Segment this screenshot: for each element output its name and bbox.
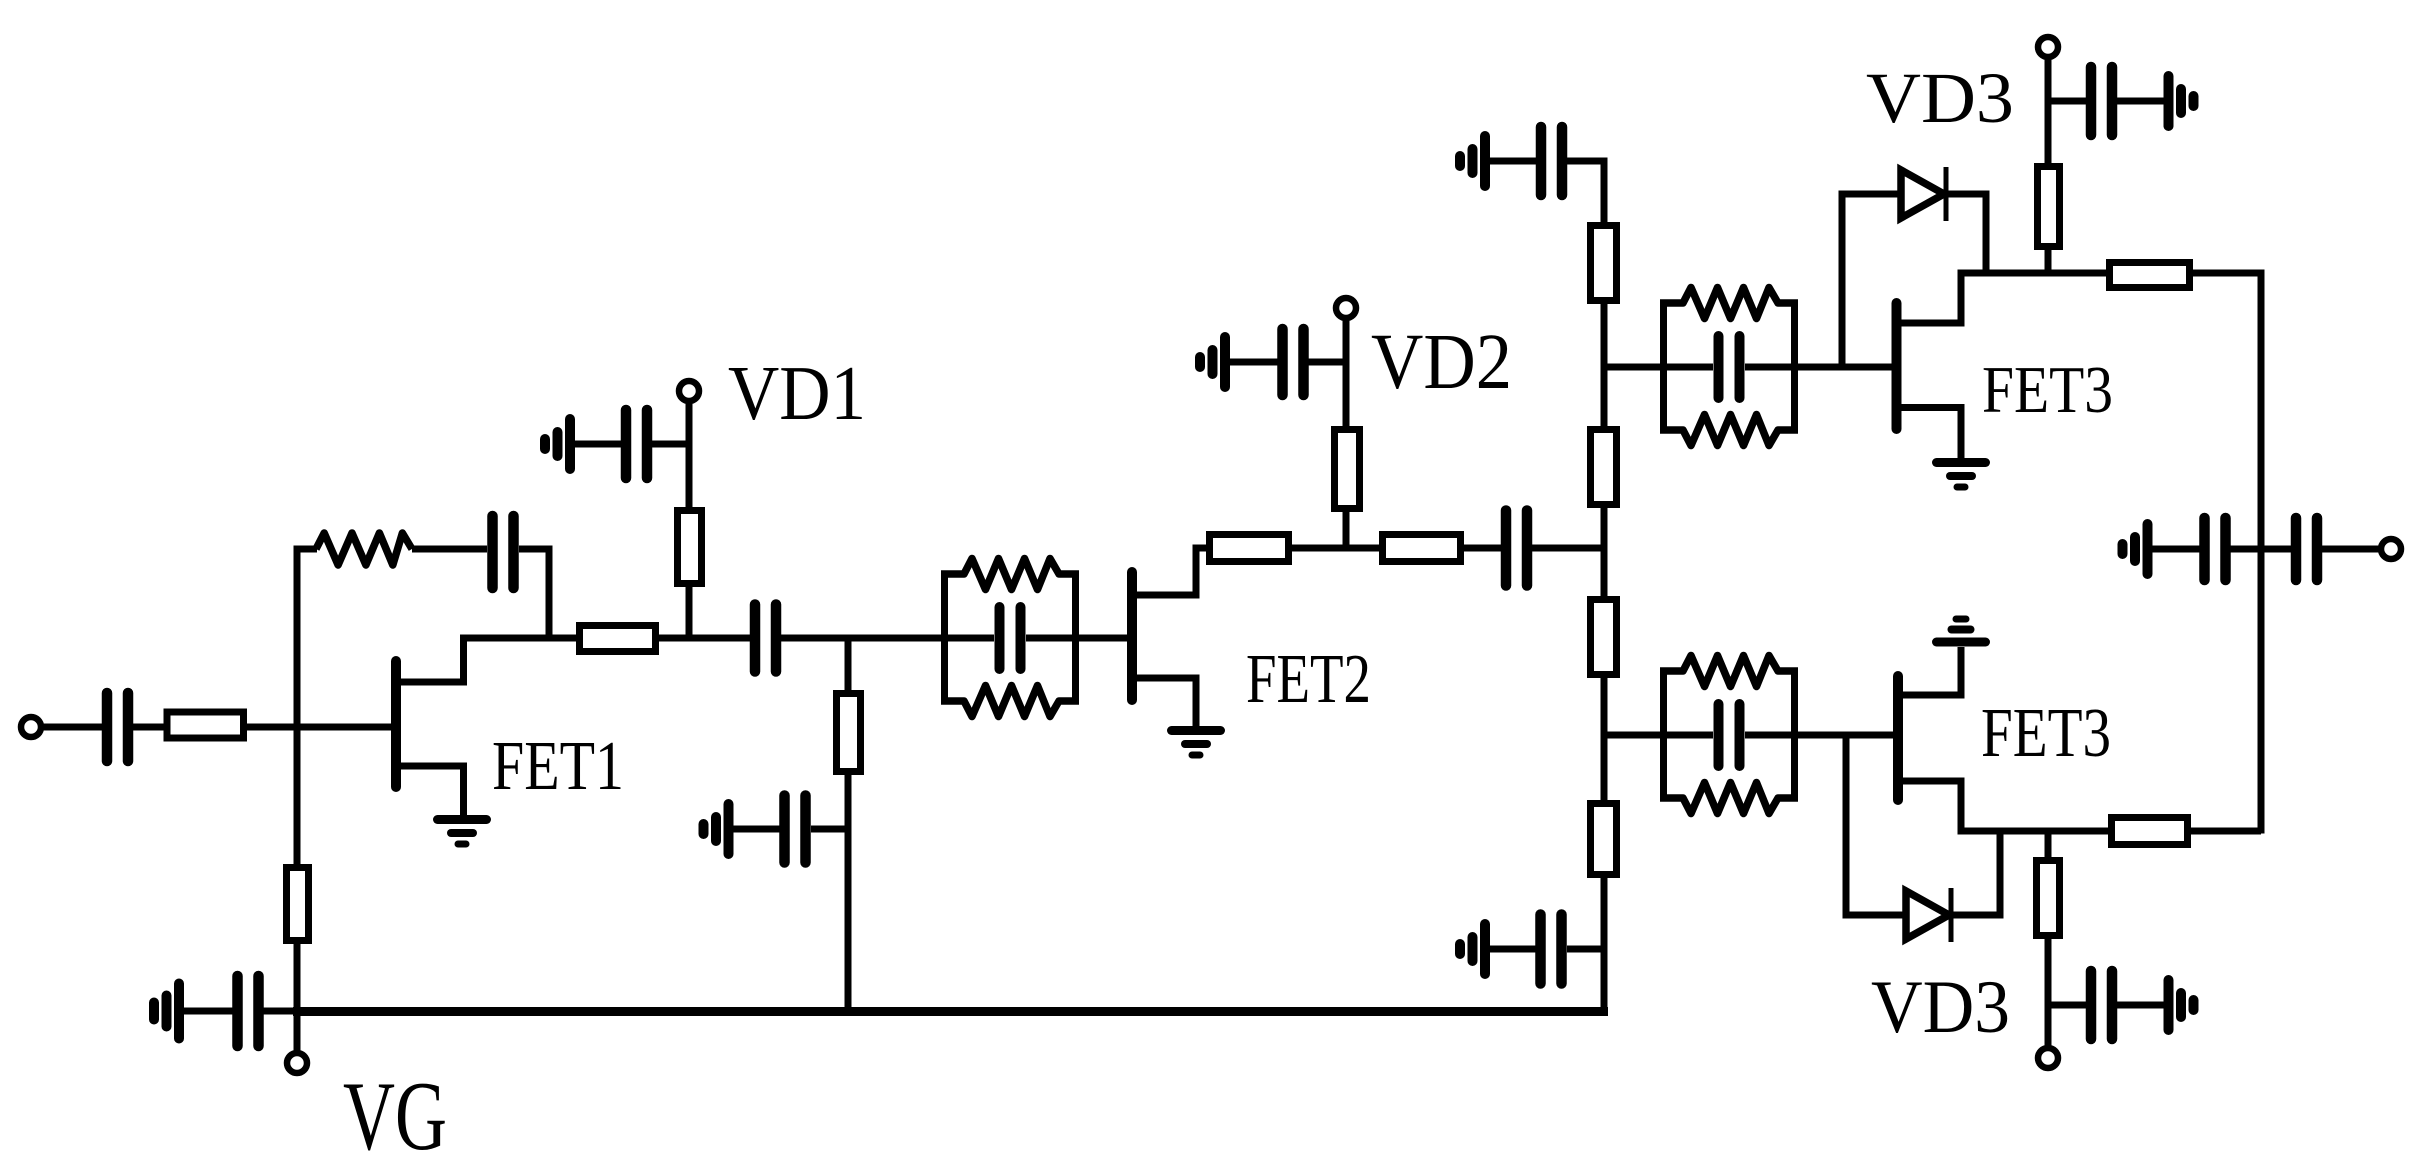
terminal VD3 top — [2038, 37, 2058, 57]
wire diode cathode stub bottom — [1951, 912, 2004, 919]
wire FET2 drain bus — [1196, 545, 1505, 552]
resistor R8 VD2 bias — [1335, 430, 1360, 509]
resistor R2 feedback — [316, 533, 412, 565]
node A gate bias vertical — [294, 546, 301, 1008]
wire FET3 bottom output node — [1961, 828, 2112, 835]
wire C7 stub — [1307, 359, 1350, 366]
resistor R9 column top — [1591, 226, 1617, 301]
wire C14 to ground — [184, 1008, 234, 1015]
capacitor C2 feedback — [493, 516, 514, 588]
output terminal — [2381, 539, 2401, 559]
wire FET1 drain lead — [399, 635, 464, 683]
resistor R17 gate bias — [287, 868, 309, 941]
capacitor C9 column bottom bypass — [1541, 915, 1562, 984]
ground output shunt — [2123, 524, 2148, 574]
capacitor C10 VD3 top bypass — [2091, 67, 2112, 135]
capacitor C7 VD2 bypass — [1283, 329, 1304, 395]
wire ground to C12 — [2152, 546, 2201, 553]
wire C7 to ground — [1230, 359, 1279, 366]
wire column to RC2 — [1604, 364, 1664, 371]
wire FET2 drain lead — [1135, 545, 1196, 596]
wire VD1 cap stub — [652, 441, 692, 448]
wire C2 to drain node — [519, 546, 553, 553]
wire VD3 top terminal down — [2045, 57, 2052, 277]
wire diode anode stub bottom — [1843, 912, 1907, 919]
wire bias tee vertical — [845, 638, 852, 1008]
capacitor C3 interstage — [755, 605, 776, 672]
resistor R6 bus series 1 — [1210, 535, 1289, 562]
resistor R14 VD3 top bias — [2038, 167, 2060, 247]
wire VG bus — [293, 1007, 1608, 1016]
label VD3 bottom — [1871, 966, 2010, 1049]
input terminal — [21, 717, 41, 737]
ground VD1 bypass — [545, 419, 570, 469]
label FET2 — [1246, 641, 1371, 718]
resistor R11 column third — [1591, 600, 1617, 675]
wire diode branch up — [1839, 191, 1846, 368]
wire C13 to output terminal — [2320, 546, 2381, 553]
ground column top bypass — [1460, 136, 1485, 186]
network RC2 parallel RC — [1660, 288, 1798, 446]
wire R15 to right rail — [2187, 828, 2261, 835]
svg-text:FET3: FET3 — [1982, 353, 2113, 427]
label VD2 — [1371, 319, 1512, 406]
label VG — [343, 1062, 447, 1171]
wire RC3 to FET3 gate — [1795, 732, 1894, 739]
transistor FET3 top gate bar — [1892, 303, 1902, 429]
transistor FET3 bottom gate bar — [1893, 676, 1903, 800]
resistor R5 bias tee — [837, 694, 861, 772]
wire FET2 source lead — [1135, 678, 1196, 726]
capacitor C4 VD1 bypass — [626, 410, 647, 478]
wire right rail — [2258, 273, 2265, 834]
wire FET1 drain to R3 — [460, 635, 579, 642]
wire C4 to ground — [575, 441, 623, 448]
resistor R12 column fourth — [1591, 804, 1617, 875]
ground VG bypass — [154, 984, 179, 1039]
wire C5 stub — [811, 826, 851, 833]
network RC3 parallel RC — [1660, 656, 1798, 814]
wire C9 to ground — [1490, 946, 1537, 953]
wire C10 to ground — [2117, 98, 2164, 105]
wire diode return up — [1997, 831, 2004, 915]
wire C3 to RC1 — [781, 635, 945, 642]
wire feedback top stub — [294, 546, 318, 553]
resistor R13 output top — [2110, 263, 2190, 288]
capacitor C12 output shunt — [2205, 518, 2226, 580]
wire C8 to ground — [1490, 158, 1537, 165]
wire C1 to R1 — [132, 724, 168, 731]
wire C12 to rail — [2230, 546, 2292, 553]
ground FET2 source — [1172, 731, 1221, 756]
label FET1 — [492, 728, 624, 805]
resistor R1 input series — [167, 712, 244, 738]
ground FET3 bottom drain inverted — [1937, 619, 1986, 642]
wire VD3 bottom vertical — [2045, 831, 2052, 1048]
wire C11 stub — [2045, 1002, 2088, 1009]
resistor R4 VD1 bias — [678, 511, 702, 584]
wire central column — [1601, 161, 1608, 1008]
wire C10 stub — [2045, 98, 2088, 105]
wire FET3 top drain lead — [1900, 270, 1961, 324]
terminal VD2 — [1336, 298, 1356, 318]
wire C5 to ground — [733, 826, 781, 833]
capacitor C6 interstage 2 — [1506, 511, 1527, 586]
wire diode cathode stub — [1946, 191, 1990, 198]
wire column to RC3 — [1604, 732, 1664, 739]
wire C6 to column — [1532, 545, 1604, 552]
wire C8 stub — [1567, 158, 1608, 165]
svg-text:VD1: VD1 — [728, 350, 866, 436]
wire FET3 bottom source lead — [1901, 781, 1961, 835]
svg-text:FET2: FET2 — [1246, 641, 1371, 718]
wire VD1 terminal down — [686, 401, 693, 642]
wire feedback down to drain wire — [546, 546, 553, 638]
wire R3 to C3 — [656, 635, 750, 642]
ground bias bypass — [704, 804, 729, 854]
wire RC2 to FET3 gate — [1795, 364, 1893, 371]
terminal VD3 bottom — [2038, 1048, 2058, 1068]
label VD3 top — [1866, 58, 2014, 138]
transistor FET2 gate bar — [1127, 572, 1137, 700]
label FET3 bottom — [1981, 695, 2111, 772]
resistor R15 output bottom — [2112, 818, 2188, 845]
wire diode branch down — [1843, 735, 1850, 919]
svg-text:VD3: VD3 — [1871, 966, 2010, 1049]
transistor FET1 gate bar — [391, 661, 401, 787]
wire VD2 terminal down — [1343, 318, 1350, 552]
resistor R16 VD3 bottom bias — [2037, 861, 2060, 936]
wire FET3 top drain node — [1961, 270, 2110, 277]
wire R2 to C2 — [412, 546, 487, 553]
wire RC1 to FET2 gate — [1076, 635, 1128, 642]
wire C9 stub — [1567, 946, 1608, 953]
label VD1 — [728, 350, 866, 436]
label FET3 top — [1982, 353, 2113, 427]
resistor R3 FET1 drain load — [580, 626, 656, 652]
wire diode return down — [1983, 194, 1990, 273]
network RC1 parallel RC — [941, 559, 1079, 717]
wire C14 to VG node — [262, 1008, 299, 1015]
wire R1 to FET1 gate node — [243, 724, 392, 731]
capacitor C8 column top bypass — [1541, 127, 1562, 195]
wire C11 to ground — [2117, 1002, 2164, 1009]
terminal VD1 — [679, 381, 699, 401]
resistor R7 bus series 2 — [1383, 535, 1461, 562]
svg-text:FET1: FET1 — [492, 728, 624, 805]
svg-text:VD3: VD3 — [1866, 58, 2014, 138]
svg-text:FET3: FET3 — [1981, 695, 2111, 772]
ground FET3 top source — [1937, 463, 1986, 488]
wire FET1 source lead — [399, 766, 464, 815]
svg-text:VD2: VD2 — [1371, 319, 1512, 406]
wire diode anode stub — [1839, 191, 1902, 198]
diode VD3 bottom — [1906, 888, 1951, 942]
diode VD3 top — [1901, 167, 1946, 221]
capacitor C5 bias bypass — [785, 796, 806, 863]
capacitor C11 VD3 bottom bypass — [2091, 971, 2112, 1039]
ground VD2 bypass — [1200, 337, 1225, 387]
svg-text:VG: VG — [343, 1062, 447, 1171]
wire FET3 bottom drain lead — [1901, 647, 1961, 695]
wire input to C1 — [41, 724, 103, 731]
capacitor C1 input coupling — [107, 693, 128, 761]
ground VD3 top bypass right — [2169, 76, 2194, 126]
ground column bottom bypass — [1460, 924, 1485, 974]
terminal VG — [287, 1053, 307, 1073]
ground VD3 bottom bypass right — [2169, 980, 2194, 1030]
wire FET3 top source lead — [1900, 408, 1961, 459]
ground FET1 source — [438, 820, 487, 845]
capacitor C14 VG bypass — [238, 976, 259, 1046]
resistor R10 column second — [1591, 430, 1617, 505]
wire R13 to right rail — [2189, 270, 2265, 277]
wire VG terminal stub — [294, 1008, 301, 1053]
capacitor C13 output coupling — [2296, 518, 2317, 580]
